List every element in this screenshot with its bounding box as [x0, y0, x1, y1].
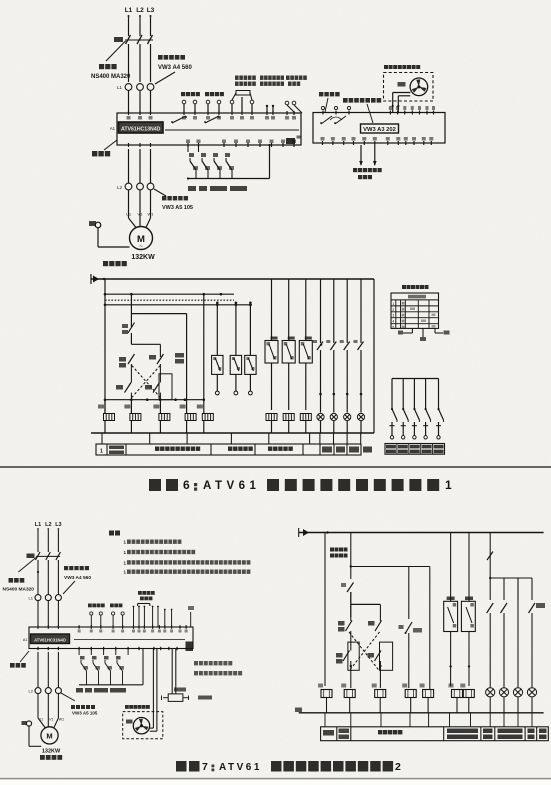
svg-text:VW3 A4 560: VW3 A4 560	[158, 65, 192, 71]
svg-text:L2: L2	[45, 522, 51, 528]
svg-text:NS400 MA320: NS400 MA320	[91, 74, 131, 80]
svg-text:W1: W1	[148, 212, 155, 217]
svg-text:VW3 A4 560: VW3 A4 560	[64, 575, 91, 581]
svg-text:A1: A1	[110, 126, 116, 131]
svg-text:2: 2	[395, 761, 401, 773]
svg-text:L1: L1	[29, 596, 34, 601]
svg-text:ATV61: ATV61	[203, 480, 260, 492]
svg-text:L2: L2	[29, 689, 34, 694]
svg-text:VW3 A3 202: VW3 A3 202	[363, 127, 396, 133]
svg-text:A1: A1	[23, 638, 28, 642]
svg-text:1: 1	[100, 449, 103, 455]
svg-text:L1: L1	[125, 7, 133, 14]
svg-text:V1: V1	[49, 718, 53, 722]
svg-text:ATV61HC13N4D: ATV61HC13N4D	[121, 127, 161, 133]
svg-text:L3: L3	[55, 522, 61, 528]
svg-text:5: 5	[392, 326, 394, 330]
svg-text:132KW: 132KW	[42, 749, 61, 755]
svg-text:U1: U1	[126, 212, 132, 217]
svg-text:W1: W1	[59, 718, 64, 722]
svg-text:ATV61: ATV61	[219, 762, 262, 773]
svg-text:3: 3	[392, 314, 394, 318]
svg-text:2: 2	[392, 308, 394, 312]
svg-text:L1: L1	[35, 522, 41, 528]
svg-text:1: 1	[445, 478, 452, 492]
svg-text:4: 4	[392, 320, 394, 324]
svg-text:6: 6	[183, 478, 190, 492]
svg-text:7: 7	[202, 761, 208, 773]
svg-text:132KW: 132KW	[131, 254, 155, 261]
svg-text:1: 1	[392, 302, 394, 306]
svg-text:~: ~	[139, 244, 143, 250]
svg-text:V1: V1	[138, 212, 144, 217]
svg-text:L2: L2	[136, 7, 144, 14]
svg-text:VW3 A5 105: VW3 A5 105	[72, 711, 98, 716]
svg-text:ATV61HC31N4D: ATV61HC31N4D	[34, 638, 66, 643]
svg-text:L3: L3	[147, 7, 155, 14]
svg-text:NS400 MA320: NS400 MA320	[3, 587, 35, 593]
svg-text:L1: L1	[117, 85, 123, 90]
svg-text:VW3 A5 105: VW3 A5 105	[162, 205, 193, 211]
svg-text:M: M	[46, 732, 52, 741]
svg-text:L2: L2	[117, 185, 123, 190]
